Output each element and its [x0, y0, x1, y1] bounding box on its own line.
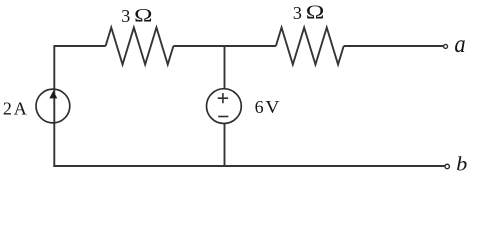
svg-text:a: a [454, 31, 465, 58]
voltage source minus sign [218, 116, 228, 118]
terminal a circle [444, 44, 448, 48]
svg-text:6: 6 [255, 97, 264, 117]
current source arrow head [49, 91, 57, 99]
svg-text:3: 3 [121, 6, 130, 26]
svg-text:2: 2 [3, 99, 12, 119]
svg-text:b: b [456, 153, 467, 176]
current source I1 circle [36, 89, 70, 123]
svg-text:V: V [265, 98, 280, 118]
svg-text:A: A [14, 99, 27, 119]
wire left vertical [53, 45, 55, 167]
voltage source V1 circle [207, 89, 242, 124]
wire middle vertical upper [224, 46, 226, 88]
svg-text:Ω: Ω [306, 1, 325, 23]
wire top-left horizontal [54, 45, 105, 47]
voltage source plus sign [218, 93, 228, 103]
svg-text:3: 3 [293, 3, 302, 23]
wire middle vertical lower [224, 124, 226, 166]
wire bottom horizontal [53, 165, 444, 167]
wire top-right horizontal to terminal a [344, 45, 444, 47]
svg-text:Ω: Ω [134, 4, 152, 26]
wire top-middle horizontal [173, 45, 276, 47]
terminal b circle [445, 164, 449, 168]
resistor R2 (3 ohm, right) [276, 28, 344, 65]
resistor R1 (3 ohm, left) [106, 28, 174, 65]
